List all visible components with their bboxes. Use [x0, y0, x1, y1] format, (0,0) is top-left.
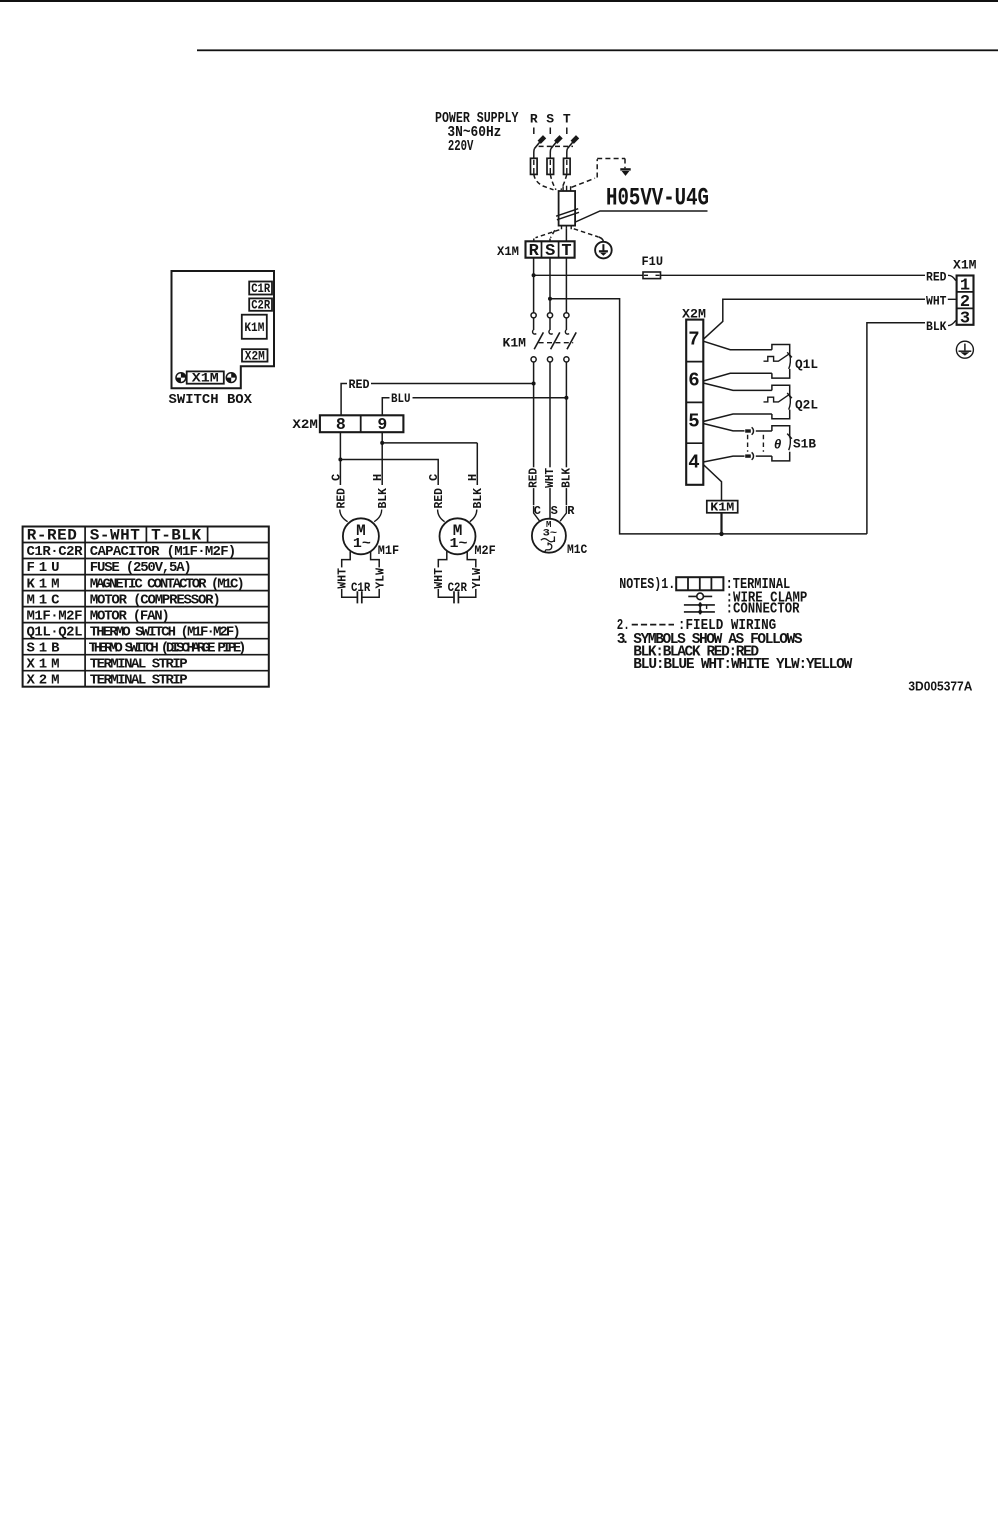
wire BLU branch to X2M-9	[382, 398, 566, 416]
field ground arrow	[620, 169, 630, 176]
wire M2F bottom right + capacitor C2R right lead	[459, 551, 476, 597]
power supply label	[435, 110, 519, 155]
svg-text:X2M: X2M	[292, 417, 318, 432]
cable H05VV-U4G	[556, 186, 579, 229]
wire fuse R to cable (dashed)	[534, 174, 554, 189]
junction K1M coil return	[719, 532, 723, 536]
svg-text:1~: 1~	[450, 536, 468, 552]
switch box part C2R	[249, 298, 272, 312]
wire M2F C into motor	[438, 510, 445, 522]
svg-text:RED: RED	[432, 488, 446, 509]
wire M1F bottom left + capacitor C1R left lead	[342, 551, 357, 597]
svg-text:BLK: BLK	[471, 487, 485, 508]
svg-text:M1C: M1C	[27, 592, 61, 608]
lead label BLK (M1C)	[559, 467, 573, 488]
ground (protective earth, right)	[956, 341, 973, 358]
wire M2F bottom left + capacitor C2R left lead	[438, 551, 453, 597]
svg-text:MOTOR (FAN): MOTOR (FAN)	[90, 608, 170, 624]
wire field supply T (dashed stub)	[566, 128, 568, 135]
terminal strip X1M (1 2 3)	[957, 276, 974, 329]
switch box part K1M	[242, 315, 267, 339]
svg-text:RED: RED	[349, 377, 370, 392]
svg-text:X1M: X1M	[497, 244, 519, 259]
terminal strip X1M (R S T)	[526, 241, 575, 261]
junction M1F C / M2F C	[338, 458, 342, 462]
wire X2M-9 down (M1F H)	[381, 432, 383, 485]
junction M1F H / M2F H	[380, 441, 384, 445]
wire X2M-4 to K1M coil	[703, 465, 721, 501]
svg-text:C1R: C1R	[251, 282, 270, 296]
wire X2M-7 to Q1L	[703, 341, 772, 350]
wire K1M pole2 to M1C S	[549, 362, 551, 519]
lead label WHT (M1F)	[336, 567, 350, 589]
svg-text:3: 3	[960, 309, 970, 328]
svg-text:C: C	[427, 474, 441, 481]
wire K1M coil to return net	[720, 513, 722, 534]
svg-text:X1M: X1M	[953, 258, 977, 273]
svg-text:K1M: K1M	[27, 576, 60, 592]
wire M1C C diagonal	[534, 506, 540, 521]
note terminal symbol	[676, 577, 723, 590]
wire K1M pole3 to M1C R	[565, 362, 567, 505]
svg-text:θ: θ	[774, 437, 781, 452]
svg-text:4: 4	[688, 452, 699, 474]
node label RED	[347, 377, 371, 392]
wire X2M-6 to Q2L	[703, 383, 772, 390]
svg-text:S: S	[551, 504, 558, 518]
svg-text:C1R·C2R: C1R·C2R	[27, 544, 84, 560]
svg-text:H05VV-U4G: H05VV-U4G	[606, 184, 709, 213]
svg-text:MOTOR (COMPRESSOR): MOTOR (COMPRESSOR)	[90, 592, 221, 608]
svg-text:MAGNETIC CONTACTOR (M1C): MAGNETIC CONTACTOR (M1C)	[90, 576, 245, 592]
svg-text:X2M: X2M	[245, 349, 265, 363]
svg-text:S-WHT: S-WHT	[90, 526, 140, 544]
svg-text:S1B: S1B	[793, 437, 816, 452]
svg-text:X1M: X1M	[192, 372, 219, 386]
ground (protective earth, left)	[595, 242, 612, 259]
svg-text:H: H	[466, 474, 480, 481]
wire branch to M2F H	[382, 443, 477, 485]
svg-text:7: 7	[688, 328, 699, 350]
svg-text:K1M: K1M	[503, 335, 527, 350]
svg-text:C1R: C1R	[351, 580, 370, 595]
contactor linkage (dashed)	[539, 342, 574, 344]
terminal strip X2M (8 9)	[320, 415, 404, 434]
svg-text:THERMO SWITCH (M1F·M2F): THERMO SWITCH (M1F·M2F)	[90, 624, 241, 640]
svg-text:X2M: X2M	[27, 673, 60, 689]
svg-text:3D005377A: 3D005377A	[908, 678, 973, 693]
ground screw right	[226, 373, 236, 383]
lead label WHT (M2F)	[432, 567, 446, 589]
svg-text:M2F: M2F	[474, 543, 495, 558]
svg-text:BLK: BLK	[559, 467, 573, 488]
svg-text:WHT: WHT	[432, 568, 446, 589]
svg-text:BLK: BLK	[926, 319, 947, 334]
svg-text:9: 9	[377, 415, 387, 434]
wire S phase to K1M coil return (long L path)	[550, 299, 867, 534]
field ground branch (dashed)	[572, 159, 626, 188]
field fuse T	[564, 158, 571, 174]
wire WHT net X2M-7 to X1M-2	[703, 299, 925, 339]
lead label YLW (M1F)	[373, 567, 387, 589]
svg-text::CONNECTOR: :CONNECTOR	[726, 602, 800, 618]
capacitor C1R	[357, 591, 361, 603]
svg-text:YLW: YLW	[470, 567, 484, 588]
svg-text:YLW: YLW	[373, 567, 387, 588]
svg-text:8: 8	[336, 415, 346, 434]
svg-text:FUSE (250V,5A): FUSE (250V,5A)	[90, 560, 192, 576]
junction BLU branch	[564, 396, 568, 400]
svg-text:BLK: BLK	[376, 487, 390, 508]
svg-text:C: C	[329, 474, 343, 481]
svg-text:T-BLK: T-BLK	[151, 526, 201, 544]
svg-text:K1M: K1M	[710, 501, 734, 515]
wire M1F H into motor	[374, 510, 382, 522]
svg-text:T: T	[563, 111, 571, 126]
svg-text:220V: 220V	[448, 138, 474, 155]
capacitor C2R	[454, 591, 458, 603]
wire Q2L to X2M-5	[703, 414, 772, 422]
note 2 field wiring	[617, 618, 776, 634]
field fuse R	[531, 158, 538, 174]
connector (S1B top)	[745, 427, 772, 434]
motor M2F	[440, 518, 476, 554]
contactor K1M pole 3	[564, 313, 576, 362]
svg-text:TERMINAL STRIP: TERMINAL STRIP	[90, 673, 188, 689]
wire BLK corner to label	[867, 323, 925, 534]
svg-text:F1U: F1U	[642, 254, 664, 269]
wire RED branch to X2M-8	[341, 384, 533, 416]
wire cable to X1M S (dashed)	[550, 230, 555, 241]
switch box outline	[172, 271, 275, 388]
label RED (right)	[925, 269, 956, 284]
wire cable to X1M R (dashed)	[534, 230, 560, 242]
motor M1C (compressor)	[532, 519, 566, 553]
lead label YLW (M2F)	[470, 567, 484, 589]
motor M1F	[343, 518, 379, 554]
disconnect switch blade R	[534, 137, 545, 159]
wire M1F bottom right + capacitor C1R right lead	[362, 551, 379, 597]
svg-text:TERMINAL STRIP: TERMINAL STRIP	[90, 656, 188, 672]
svg-text:R-RED: R-RED	[27, 526, 77, 544]
wire X2M-8 down (M1F C)	[339, 432, 341, 485]
svg-text:5: 5	[688, 411, 699, 433]
wire field supply R (dashed stub)	[533, 128, 535, 135]
label BLK (right)	[925, 319, 956, 334]
wire Q1L to X2M-6	[703, 373, 772, 381]
svg-text:RED: RED	[334, 488, 348, 509]
wire S1B bottom to X2M-4 (with connector)	[703, 452, 772, 462]
switch box part C1R	[249, 282, 272, 297]
wire X2M-5 to S1B (with connector)	[703, 424, 744, 431]
junction S branch	[548, 297, 552, 301]
svg-text:WHT: WHT	[926, 293, 947, 308]
wire M2F H into motor	[470, 510, 477, 522]
svg-text:M1F: M1F	[378, 543, 399, 558]
wire X1M-R to K1M pole 1	[533, 258, 535, 313]
fuse F1U	[643, 272, 661, 279]
svg-text:X1M: X1M	[27, 656, 60, 672]
thermo switch Q2L	[764, 385, 792, 419]
connector dashed link	[748, 435, 764, 452]
svg-text:C2R: C2R	[251, 299, 270, 313]
label WHT (right)	[925, 293, 956, 308]
terminal strip X2M (7 6 5 4)	[686, 320, 703, 485]
note 3 symbols	[617, 632, 853, 673]
svg-text:1~: 1~	[353, 536, 371, 552]
wire M1F C into motor	[340, 510, 348, 522]
svg-text:THERMO SWITCH (DISCHARGE PIPE): THERMO SWITCH (DISCHARGE PIPE)	[89, 640, 247, 656]
contactor coil K1M	[707, 501, 738, 515]
svg-text:S: S	[546, 111, 554, 126]
wire K1M pole1 to M1C C	[533, 362, 535, 505]
wire RED net (R phase to X1M-1)	[534, 274, 925, 276]
svg-text:BLU: BLU	[391, 391, 411, 406]
wire X1M-S to K1M pole 2	[549, 258, 551, 313]
switch box part X2M	[242, 349, 268, 363]
ground screw left	[176, 373, 186, 383]
wire cable to ground (dashed)	[574, 229, 604, 242]
wire M1C R diagonal	[560, 506, 566, 521]
svg-text:R: R	[530, 111, 538, 126]
junction R/F1U	[532, 273, 536, 277]
svg-text:RED: RED	[926, 269, 947, 284]
lead label RED (M1C)	[527, 467, 541, 488]
svg-text:NOTES)1.: NOTES)1.	[619, 577, 675, 593]
svg-text:RED: RED	[527, 468, 541, 488]
svg-text:Q2L: Q2L	[795, 398, 818, 413]
svg-text:3.: 3.	[617, 632, 630, 648]
node label BLU	[390, 391, 413, 406]
wire X1M-T to K1M pole 3	[565, 258, 567, 313]
svg-text:CAPACITOR (M1F·M2F): CAPACITOR (M1F·M2F)	[90, 544, 237, 560]
disconnect switch blade S	[550, 137, 561, 159]
thermo switch Q1L	[764, 345, 792, 379]
disconnect switch blade T	[567, 137, 578, 159]
wire branch to M2F C	[340, 460, 438, 486]
note connector symbol	[684, 602, 715, 614]
wire fuse S to cable (dashed)	[550, 174, 556, 189]
svg-text:M1F·M2F: M1F·M2F	[27, 608, 83, 624]
svg-text:H: H	[371, 474, 385, 481]
svg-text:F1U: F1U	[27, 560, 60, 576]
junction RED branch	[532, 382, 536, 386]
field fuse S	[547, 158, 554, 174]
thermo switch S1B	[772, 426, 792, 461]
svg-text:WHT: WHT	[336, 568, 350, 589]
svg-text:Q1L: Q1L	[795, 357, 818, 372]
svg-text:M1C: M1C	[567, 542, 587, 557]
svg-text:C2R: C2R	[448, 580, 467, 595]
svg-text:S1B: S1B	[27, 640, 61, 656]
svg-text:WHT: WHT	[543, 468, 557, 488]
svg-text:K1M: K1M	[244, 321, 264, 335]
svg-text:BLU:BLUE WHT:WHITE YLW:YELLOW: BLU:BLUE WHT:WHITE YLW:YELLOW	[633, 657, 852, 673]
wire cable to X1M T	[565, 229, 567, 242]
cable label leader line	[575, 211, 707, 222]
legend table	[23, 526, 269, 688]
lead label WHT (M1C)	[543, 467, 557, 488]
contactor K1M pole 2	[547, 313, 559, 362]
svg-text:Q1L·Q2L: Q1L·Q2L	[27, 624, 83, 640]
svg-text:R: R	[567, 504, 575, 518]
svg-text:SWITCH BOX: SWITCH BOX	[169, 392, 253, 408]
switch linkage (dashed)	[539, 145, 573, 147]
svg-text:6: 6	[688, 369, 699, 391]
contactor K1M pole 1	[531, 313, 543, 362]
wire fuse T to cable (dashed)	[561, 174, 567, 189]
switch box part X1M	[187, 371, 224, 385]
wire field supply S (dashed stub)	[549, 128, 551, 135]
note wire clamp symbol	[688, 593, 712, 600]
